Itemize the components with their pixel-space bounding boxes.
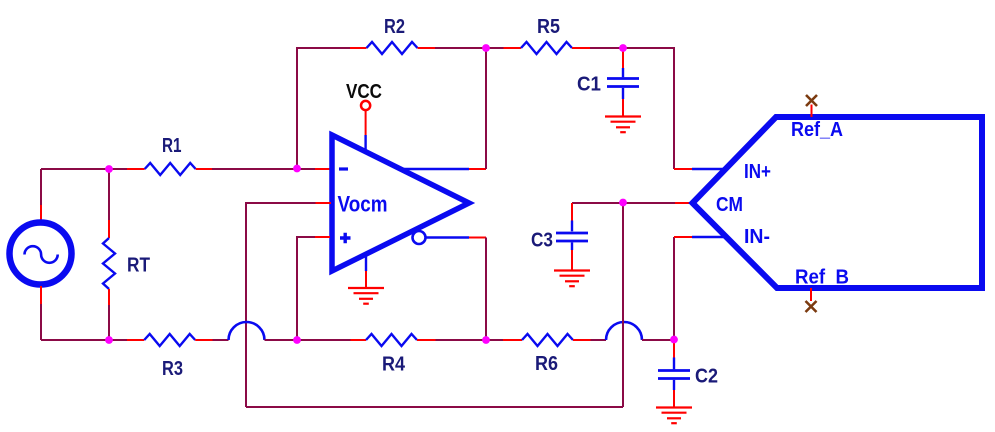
svg-text:R1: R1 [162,135,182,157]
wire red stub into op-amp minus pin [315,168,330,170]
svg-text:R3: R3 [162,358,183,380]
node dot R2/R5 output [482,44,490,52]
wire red stub into plus pin [315,236,330,238]
wire blue upper output line [401,168,470,170]
wire red lead RT bottom [108,289,110,305]
svg-text:VCC: VCC [346,81,382,103]
ADC U2 Ref_A pin stub (red) [811,105,813,118]
wire red stub left of R5 [504,47,522,49]
wire red stub into Vocm pin [316,202,332,204]
wire red lead source top [40,205,42,221]
svg-text:C3: C3 [531,230,553,252]
svg-text:Ref_B: Ref_B [795,267,849,289]
svg-text:IN-: IN- [744,226,770,248]
VCC symbol open circle [361,101,370,110]
ground symbol under op-amp [348,288,384,304]
svg-text:IN+: IN+ [744,161,771,183]
svg-text:R5: R5 [537,16,560,38]
node dot RT bottom [105,336,113,344]
svg-text:R6: R6 [535,353,558,375]
capacitor C2 red lead bottom [673,390,675,407]
svg-text:CM: CM [716,194,743,216]
node dot C1 tap [619,44,627,52]
wire red stub right of R4 [417,339,436,341]
capacitor C1 red lead top [622,48,624,68]
capacitor C3 red lead bottom [571,250,573,270]
wire bottom row left of R3 [41,339,127,341]
no-connect X on Ref_A [806,95,817,106]
wire red stub upper output [469,168,486,170]
wire bottom row R4 to output node [436,339,504,341]
wire red stub left of R6 [503,339,522,341]
node dot lower output branch [482,336,490,344]
node dot CM feedback [619,199,627,207]
wire bottom row hop to plus node [265,339,351,341]
wire red stub into IN- pin [674,236,692,238]
no-connect X on Ref_B [806,301,817,312]
wire Vocm feedback corner [246,203,316,407]
wire bottom row to second hop [591,339,607,341]
resistor R4 [366,334,417,346]
wire hop arc over feedback riser [606,322,642,340]
wire red VCC lead [365,110,367,135]
wire top row left segment (R2 branch riser from inverting-input node) [297,48,350,169]
ADC IN- pin line (blue) [692,236,724,238]
wire R1 to inverting-input node [212,168,315,170]
resistor R2 [367,42,418,54]
op-amp U1 triangle body [332,135,469,271]
capacitor C3 red lead top [571,203,573,221]
wire drop from lower output to bottom row [485,238,487,341]
wire IN- drop to C2 node [673,237,675,340]
wire feedback bottom run [246,406,623,408]
wire red stub into CM pin [675,202,692,204]
wire red stub right of R2 [418,47,436,49]
svg-text:Ref_A: Ref_A [791,119,843,141]
wire hop arc over Vocm feedback [229,322,265,340]
resistor RT (vertical) [103,238,115,289]
resistor R1 [145,163,196,175]
wire left rail vertical above source [40,169,42,205]
node dot RT top [105,165,113,173]
wire RT column lower [108,305,110,340]
resistor R6 [522,334,573,346]
wire red stub left of R4 [351,339,367,341]
wire bottom row hop to C2 node [642,339,674,341]
svg-text:R4: R4 [382,354,406,376]
resistor R5 [521,42,572,54]
node dot C2 tap [670,336,678,344]
wire red stub left of R3 [127,339,144,341]
wire red stub right of R5 [572,47,590,49]
wire left rail top horizontal to RT node [41,168,127,170]
ADC U2 Ref_B pin stub (red) [810,288,812,301]
capacitor C3 plates [556,233,588,241]
node dot inverting input [293,165,301,173]
op-amp U1 inverting output bubble [413,231,426,244]
wire CM row from C3 corner to polygon [572,202,675,204]
wire red stub lower output [469,237,486,239]
AC source V1 sine symbol [25,246,58,263]
wire left rail vertical below source [40,304,42,340]
wire red stub right of R6 [573,339,591,341]
wire red lead source bottom [40,286,42,304]
wire blue lower output line [426,236,470,238]
capacitor C2 plates [658,371,690,379]
op-amp U1 ground pin (blue) [365,254,367,271]
ground symbol under C2 [656,408,692,424]
capacitor C3 blue lead bottom [571,242,573,250]
ground symbol under C3 [554,271,590,287]
wire red stub left of R2 [350,47,367,49]
wire top row between R2 and R5 [435,47,504,49]
node dot plus input branch [293,336,301,344]
capacitor C1 blue lead bottom [622,88,624,99]
capacitor C1 blue lead top [622,68,624,77]
wire red stub into IN+ pin [674,168,692,170]
wire red ground lead of op-amp [365,271,367,287]
svg-text:Vocm: Vocm [338,192,388,217]
wire top row right segment with corner down to IN+ [590,48,674,169]
svg-text:R2: R2 [384,16,405,38]
capacitor C2 blue lead bottom [673,380,675,390]
ADC IN+ pin line (blue) [692,168,724,170]
capacitor C3 blue lead top [571,221,573,232]
ADC U2 polygon body [693,117,983,288]
AC source V1 circle [10,223,72,285]
wire red lead RT top [108,220,110,238]
wire red stub right of R1 [196,168,212,170]
op-amp U1 VCC pin (blue) [364,135,366,150]
wire riser from upper output to top row [485,48,487,169]
svg-text:RT: RT [127,255,150,277]
wire red stub left of R1 [127,168,145,170]
capacitor C1 red lead bottom [622,99,624,116]
resistor R3 [144,334,195,346]
capacitor C2 blue lead top [673,358,675,370]
op-amp U1 minus pin label [339,167,348,170]
wire feedback riser to CM row [622,203,624,407]
capacitor C1 plates [607,79,639,87]
capacitor C2 red lead top [673,340,675,358]
svg-text:C2: C2 [695,366,718,388]
wire bottom row to first hop [213,339,229,341]
op-amp U1 plus pin label [340,233,351,244]
wire plus-input branch vertical [297,237,315,340]
svg-text:C1: C1 [577,74,601,96]
wire red stub right of R3 [195,339,212,341]
ground symbol under C1 [605,117,641,133]
wire RT column upper [108,169,110,220]
